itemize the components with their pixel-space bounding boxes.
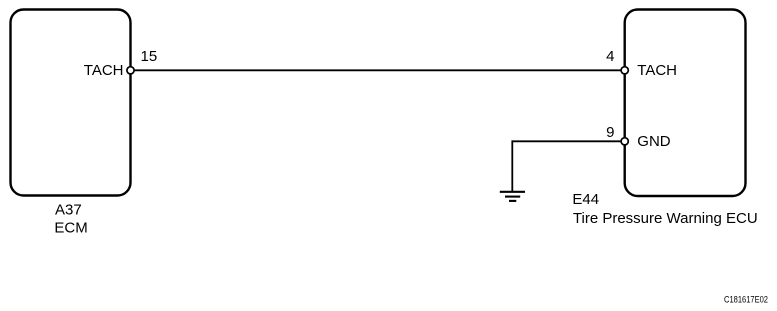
svg-text:A37: A37 [55,201,82,218]
svg-text:15: 15 [141,48,158,65]
svg-text:TACH: TACH [84,62,124,79]
svg-text:GND: GND [637,133,671,150]
pin 9 terminal circle [621,138,628,145]
svg-text:E44: E44 [572,191,599,208]
pin 4 terminal circle [621,67,628,74]
svg-text:C181617E02: C181617E02 [724,295,768,305]
connector box A37 (ECM) [11,10,131,196]
svg-text:ECM: ECM [54,219,87,236]
svg-text:Tire Pressure Warning ECU: Tire Pressure Warning ECU [573,210,758,227]
svg-text:TACH: TACH [637,62,677,79]
connector box E44 (Tire Pressure Warning ECU) [625,10,746,197]
wire GND net horizontal segment: ground drop to E44 pin 9 [512,140,621,142]
ground symbol [500,192,525,201]
wire TACH net: A37 pin 15 to E44 pin 4 [134,69,621,71]
svg-text:9: 9 [606,124,614,141]
svg-text:4: 4 [606,48,614,65]
wire GND net vertical segment down to ground [511,140,513,191]
pin 15 terminal circle [127,67,134,74]
